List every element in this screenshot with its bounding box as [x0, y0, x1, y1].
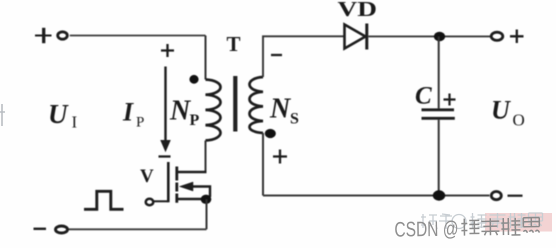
label UO	[491, 96, 525, 130]
wire bottom-right rail	[263, 195, 490, 197]
transformer core	[233, 76, 237, 132]
gate terminal circle	[146, 199, 154, 205]
wire top-left rail	[70, 35, 206, 37]
svg-text:S: S	[290, 111, 299, 128]
source stub	[178, 198, 204, 200]
label IP	[122, 98, 144, 131]
wire primary bottom drop	[205, 141, 207, 173]
pulse drive symbol	[84, 191, 124, 209]
body arrow	[192, 187, 210, 198]
transformer primary winding NP	[206, 80, 221, 141]
svg-text:I: I	[72, 113, 78, 132]
gate lead wire	[154, 200, 168, 202]
junction dot bottom	[433, 190, 445, 200]
polarity dot secondary	[265, 129, 276, 138]
scan artifact left edge	[0, 104, 5, 126]
wire diode to junction	[368, 35, 490, 37]
polarity dot primary	[189, 75, 198, 84]
wire source down	[206, 199, 208, 229]
svg-text:I: I	[122, 98, 134, 127]
svg-text:T: T	[227, 32, 241, 56]
drain stub	[178, 171, 207, 173]
capacitor C	[422, 37, 455, 196]
primary plus polarity	[161, 44, 174, 57]
svg-text:O: O	[513, 111, 525, 130]
gate bar	[167, 162, 170, 202]
current arrow IP	[161, 67, 170, 152]
watermark faint overlay	[421, 213, 543, 229]
junction dot source	[201, 195, 212, 204]
wire secondary bottom	[262, 133, 264, 196]
diode VD	[345, 24, 367, 50]
transistor V (MOSFET)	[146, 162, 210, 205]
svg-text:C: C	[415, 83, 432, 110]
svg-text:CSDN @: CSDN @	[394, 216, 458, 241]
svg-text:P: P	[190, 112, 200, 129]
transformer secondary winding NS	[250, 77, 264, 133]
watermark CSDN	[394, 215, 539, 241]
svg-text:N: N	[269, 94, 292, 125]
watermark highlight box	[485, 213, 552, 232]
secondary minus polarity	[271, 54, 282, 56]
svg-text:VD: VD	[338, 0, 377, 21]
capacitor plus polarity	[444, 94, 456, 106]
wire bottom-left rail	[68, 228, 207, 230]
terminal input positive	[35, 28, 67, 43]
svg-text:V: V	[140, 166, 154, 187]
wire secondary top	[263, 36, 344, 77]
primary minus polarity	[159, 155, 171, 157]
svg-text:P: P	[136, 115, 144, 131]
label NP	[169, 96, 200, 130]
svg-text:U: U	[48, 99, 69, 129]
secondary plus polarity	[273, 150, 287, 164]
wire primary top drop	[205, 36, 207, 80]
terminal output positive	[491, 30, 523, 44]
svg-text:U: U	[491, 96, 511, 125]
junction dot top	[434, 32, 445, 42]
channel segments	[175, 167, 178, 203]
label NS	[269, 94, 299, 128]
terminal input negative	[34, 226, 68, 233]
terminal output negative	[491, 192, 522, 200]
label UI	[48, 99, 78, 132]
